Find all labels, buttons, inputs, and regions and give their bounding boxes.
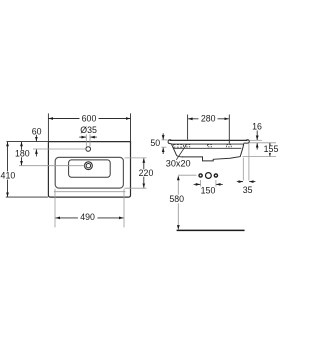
bowl bottom left + drain + right slope (182, 144, 244, 161)
fixing hole right (214, 174, 217, 177)
centerline drain (19, 165, 85, 167)
dim 50 (150, 133, 167, 154)
svg-text:50: 50 (150, 138, 160, 148)
dashed hole left (186, 145, 190, 147)
centerline hole (33, 148, 86, 150)
dim 220 (bowl depth, right of basin) (125, 158, 155, 188)
bowl inner back line (173, 147, 241, 149)
drain circle center (206, 173, 212, 179)
svg-text:580: 580 (169, 194, 184, 204)
svg-text:155: 155 (264, 144, 279, 154)
svg-text:220: 220 (139, 168, 154, 178)
drain outer (85, 162, 93, 170)
dashed hole center (208, 145, 212, 147)
svg-text:16: 16 (252, 121, 262, 131)
svg-text:150: 150 (201, 185, 216, 195)
dim 60 (7, 127, 48, 157)
dashed hole right (227, 145, 232, 147)
deck underside line (171, 143, 244, 145)
dim 580 (168, 175, 197, 229)
dim 280 (188, 114, 230, 144)
floor line (177, 229, 245, 231)
svg-text:600: 600 (82, 113, 97, 123)
leader 30x20 (176, 146, 186, 160)
svg-text:410: 410 (1, 170, 16, 180)
dim Ø35 (79, 125, 97, 147)
drain inner (86, 164, 90, 168)
dim 600 (48, 113, 130, 141)
svg-text:35: 35 (243, 185, 253, 195)
faucet hole (86, 147, 91, 152)
svg-text:30x20: 30x20 (166, 159, 191, 169)
dim 150 (194, 180, 223, 195)
svg-text:Ø35: Ø35 (80, 125, 97, 135)
svg-text:490: 490 (80, 212, 95, 222)
svg-text:60: 60 (32, 127, 42, 137)
deck top (170, 139, 248, 141)
dim 16 (250, 121, 276, 149)
basin outer rect (48, 142, 130, 198)
overflow dashed box 30x20 (174, 145, 184, 148)
deck left cap (168, 140, 171, 144)
dim 180 (14, 142, 31, 166)
svg-text:280: 280 (201, 114, 216, 124)
svg-text:180: 180 (15, 148, 30, 158)
dim 410 (0, 142, 48, 197)
dim 35 (237, 144, 256, 196)
fixing hole left (199, 174, 202, 177)
bowl outline (55, 157, 123, 188)
right cap (244, 140, 250, 143)
bowl floor inner rect (69, 160, 111, 177)
dim 155 (243, 143, 280, 157)
bowl front contour line (54, 191, 126, 193)
dim 490 (55, 189, 124, 228)
front slope (171, 144, 183, 157)
